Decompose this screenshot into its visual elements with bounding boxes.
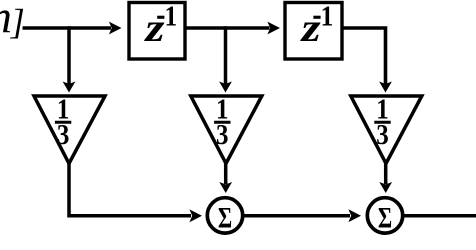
svg-text:3: 3 [57, 120, 70, 151]
wire gain triangle 1 to summer S1 [69, 163, 191, 216]
wire branch down to gain triangle 2 [224, 26, 228, 84]
svg-text:1: 1 [321, 1, 334, 32]
svg-text:Σ: Σ [218, 201, 232, 234]
delay box Z2 [285, 3, 342, 60]
svg-text:3: 3 [376, 120, 389, 151]
svg-text:Σ: Σ [378, 201, 392, 234]
svg-text:]: ] [10, 2, 25, 42]
wire input to first delay box [23, 26, 112, 30]
wire branch down to gain triangle 1 [67, 26, 71, 84]
delay box Z1 [129, 3, 185, 60]
summer S1 [207, 198, 242, 233]
wire gain triangle 2 down to summer S1 [224, 163, 228, 184]
svg-text:z: z [299, 5, 321, 50]
svg-text:z: z [143, 5, 165, 50]
gain triangle G3 [351, 96, 422, 164]
svg-text:1: 1 [164, 1, 177, 32]
wire gain triangle 3 down to summer S2 [384, 163, 388, 184]
wire output from summer S2 [403, 214, 476, 218]
gain triangle G1 [34, 96, 105, 164]
wire delay box Z2 to gain triangle 3 [344, 28, 386, 84]
summer S2 [367, 198, 402, 233]
svg-text:3: 3 [216, 120, 229, 151]
wire delay box Z1 to delay box Z2 [187, 26, 270, 30]
wire summer S1 to summer S2 [243, 214, 350, 218]
gain triangle G2 [191, 96, 262, 164]
